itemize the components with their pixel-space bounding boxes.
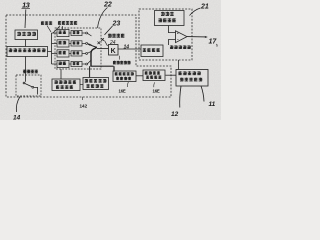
contact wire row 4 [82, 63, 88, 65]
amp box C [113, 71, 136, 82]
selector wiper and node [88, 44, 97, 49]
leader line from 13 [24, 10, 27, 29]
op-amp A1 [176, 31, 188, 43]
label 21 [200, 4, 209, 11]
filter F4 box [57, 60, 69, 67]
label 24 above K [109, 40, 116, 46]
contact wire row 2 [82, 42, 88, 44]
wire comparator to op-amp [169, 40, 176, 46]
label 14 bottom-left [13, 115, 21, 122]
label 12 under left leg [171, 111, 179, 118]
leader from filter-select text [53, 26, 62, 33]
outer dashed enclosure 13 (stepped boundary) [6, 15, 171, 97]
wire panel down to antenna box [178, 60, 180, 70]
filter F4 trim box [69, 61, 82, 66]
label 23 [112, 21, 121, 28]
wire U1 to U2 [25, 40, 27, 47]
label 13 [22, 1, 31, 10]
label 16E under box D [153, 82, 160, 93]
wire node to K [97, 48, 109, 50]
leader line from 23 [105, 26, 113, 35]
comparator box [141, 45, 163, 57]
oscillator box A [52, 79, 80, 91]
wire U2 down to switch [25, 57, 27, 76]
filter F3 trim box [69, 51, 82, 56]
wire node down and right [90, 48, 114, 77]
switch SW1 symbol [23, 75, 37, 95]
text right of comparator [170, 45, 191, 49]
label 22 [103, 2, 112, 9]
filter F2 trim box [69, 41, 82, 46]
antenna matching box [176, 70, 208, 87]
switch dashed sub-box [16, 75, 41, 96]
wire D to antenna box [166, 74, 177, 76]
signal name text left [41, 21, 53, 25]
oscillator box B [83, 78, 109, 90]
leader line from 22 [98, 8, 108, 28]
output wire to 17 [187, 36, 208, 38]
filter F3 box [57, 50, 69, 57]
leader line to 14 [16, 97, 20, 113]
label 16E under box C [119, 82, 129, 93]
wire A to B [80, 84, 83, 86]
text above K block [108, 33, 125, 38]
contact wire row 1 [82, 32, 88, 34]
wiper rotation marks [98, 38, 104, 44]
label 14 on wire right of K [124, 44, 130, 50]
receiver dashed enclosure 21 [139, 9, 192, 60]
select bus wire [48, 33, 58, 64]
throw stubs [88, 33, 92, 63]
leader near K [105, 41, 108, 47]
reference box top [155, 11, 185, 26]
leader line from 21 [190, 8, 201, 16]
box U1 function-discriminator [15, 30, 38, 40]
filter F1 trim box [69, 30, 82, 35]
signal name text filter-select [58, 21, 78, 25]
wire top box to op-amp [169, 26, 176, 33]
wire filter bank to oscillator A [60, 69, 62, 79]
box U2 wideband-signal-generator [7, 47, 48, 57]
label 17 at output [209, 39, 218, 47]
filter F2 box [57, 40, 69, 47]
switch label text [23, 69, 39, 73]
amp box D [143, 70, 165, 81]
contact wire row 3 [82, 52, 88, 54]
wire K to comparator [118, 48, 141, 50]
right leg wire [201, 86, 204, 102]
wire C to D [136, 75, 143, 77]
leader from left text to bus [47, 26, 51, 33]
text power-amp label [113, 56, 131, 65]
left leg wire [180, 86, 181, 108]
filter-bank dashed sub-box [55, 28, 101, 69]
gain block K [109, 45, 119, 56]
filter F1 box [57, 29, 69, 36]
label 142 below bottom edge [80, 97, 88, 109]
label 11 under right leg [209, 101, 216, 108]
